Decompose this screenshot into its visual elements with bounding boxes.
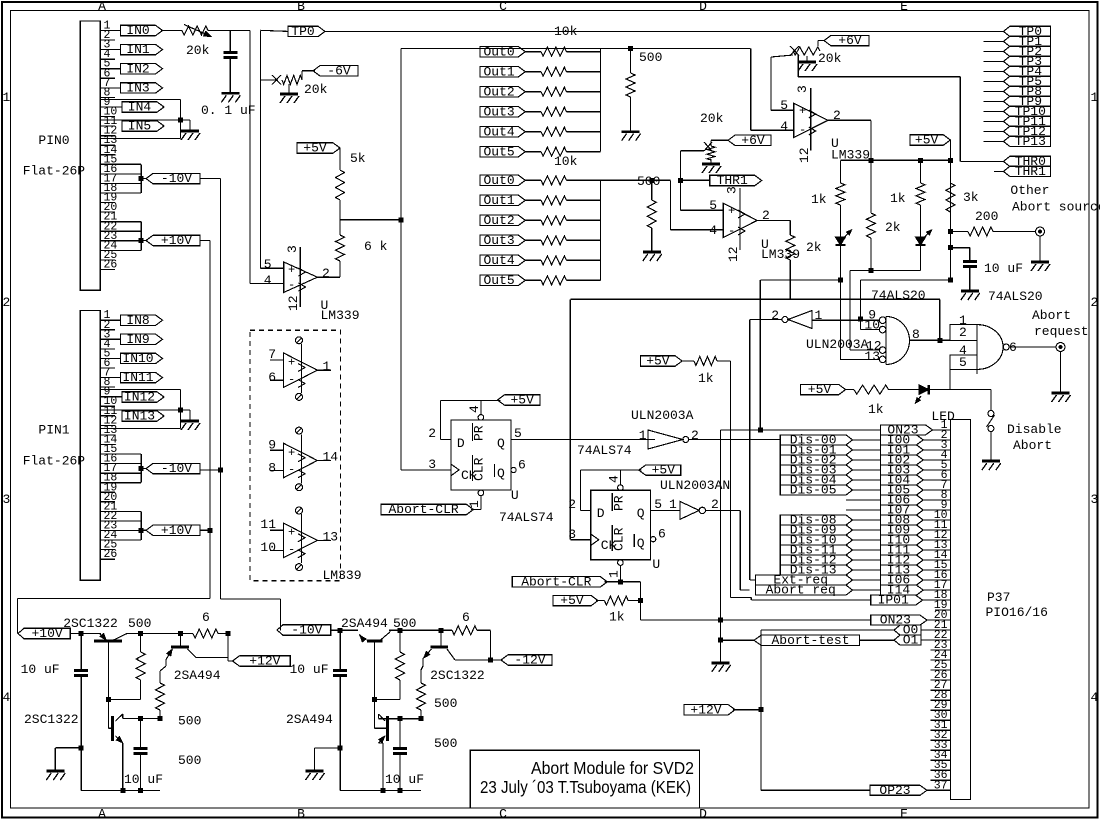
- svg-text:+5V: +5V: [510, 393, 534, 408]
- svg-text:IN0: IN0: [126, 23, 149, 38]
- svg-text:23 July ´03 T.Tsuboyama (KEK): 23 July ´03 T.Tsuboyama (KEK): [480, 777, 691, 797]
- svg-text:+5V: +5V: [646, 354, 670, 369]
- svg-text:8: 8: [912, 327, 920, 342]
- svg-text:THR1: THR1: [717, 173, 748, 188]
- svg-text:4: 4: [606, 475, 621, 483]
- svg-text:-: -: [288, 372, 295, 386]
- svg-text:10 uF: 10 uF: [21, 662, 60, 677]
- svg-text:3: 3: [1091, 492, 1099, 507]
- svg-text:500: 500: [637, 174, 660, 189]
- svg-text:6: 6: [268, 370, 276, 385]
- svg-text:Out3: Out3: [483, 233, 514, 248]
- svg-text:1: 1: [606, 570, 621, 578]
- svg-text:5: 5: [654, 497, 662, 512]
- svg-text:CLR: CLR: [472, 457, 487, 481]
- svg-text:6: 6: [518, 458, 526, 473]
- svg-text:Out0: Out0: [483, 173, 514, 188]
- svg-text:-: -: [728, 224, 735, 238]
- svg-text:5: 5: [959, 355, 967, 370]
- svg-text:A: A: [98, 0, 106, 14]
- svg-text:5k: 5k: [350, 151, 366, 166]
- svg-text:2: 2: [3, 295, 11, 310]
- svg-text:Q: Q: [637, 506, 645, 521]
- svg-text:+: +: [728, 204, 735, 218]
- svg-text:IN12: IN12: [124, 390, 155, 405]
- svg-text:500: 500: [434, 736, 457, 751]
- svg-text:2: 2: [711, 497, 719, 512]
- svg-text:Abort-CLR: Abort-CLR: [388, 502, 458, 517]
- svg-text:2SA494: 2SA494: [341, 616, 388, 631]
- svg-text:B: B: [297, 806, 305, 820]
- svg-text:12: 12: [797, 147, 812, 163]
- svg-text:Out4: Out4: [483, 253, 514, 268]
- svg-text:500: 500: [393, 616, 416, 631]
- svg-text:5: 5: [514, 426, 522, 441]
- svg-text:2SC1322: 2SC1322: [430, 668, 485, 683]
- svg-text:13: 13: [323, 529, 339, 544]
- svg-text:7: 7: [268, 347, 276, 362]
- svg-text:2: 2: [771, 308, 779, 323]
- svg-text:+6V: +6V: [838, 33, 862, 48]
- svg-text:3k: 3k: [963, 190, 979, 205]
- svg-text:2SA494: 2SA494: [174, 668, 221, 683]
- svg-text:PR: PR: [612, 495, 627, 511]
- svg-text:U: U: [511, 488, 519, 503]
- svg-text:OP23: OP23: [879, 783, 910, 798]
- svg-text:1k: 1k: [890, 191, 906, 206]
- svg-text:2: 2: [322, 266, 330, 281]
- svg-text:CLR: CLR: [612, 527, 627, 551]
- svg-text:500: 500: [178, 753, 201, 768]
- svg-text:C: C: [499, 0, 507, 14]
- svg-text:Abort-test: Abort-test: [771, 633, 849, 648]
- svg-text:IN11: IN11: [122, 370, 153, 385]
- svg-text:500: 500: [434, 696, 457, 711]
- svg-text:-10V: -10V: [291, 623, 322, 638]
- svg-text:Abort req: Abort req: [766, 583, 836, 598]
- svg-text:-: -: [288, 543, 295, 557]
- svg-text:10 uF: 10 uF: [124, 772, 163, 787]
- svg-text:+: +: [288, 526, 295, 540]
- svg-text:PIN1: PIN1: [38, 423, 69, 438]
- svg-text:1: 1: [639, 428, 647, 443]
- svg-text:+5V: +5V: [808, 382, 832, 397]
- svg-text:Out2: Out2: [483, 213, 514, 228]
- svg-text:PR: PR: [472, 425, 487, 441]
- svg-text:Abort Module for SVD2: Abort Module for SVD2: [531, 758, 694, 778]
- svg-text:+6V: +6V: [741, 133, 765, 148]
- svg-text:10: 10: [260, 540, 276, 555]
- svg-text:-6V: -6V: [327, 63, 351, 78]
- svg-text:+: +: [288, 356, 295, 370]
- svg-text:Disable: Disable: [1007, 422, 1062, 437]
- svg-text:3: 3: [725, 186, 740, 194]
- svg-text:1: 1: [323, 359, 331, 374]
- svg-text:200: 200: [975, 209, 998, 224]
- svg-text:8: 8: [268, 460, 276, 475]
- svg-text:-: -: [288, 278, 295, 292]
- svg-text:14: 14: [323, 450, 339, 465]
- svg-text:IN3: IN3: [126, 81, 149, 96]
- svg-text:U: U: [652, 557, 660, 572]
- svg-text:20k: 20k: [186, 43, 210, 58]
- svg-text:2k: 2k: [885, 220, 901, 235]
- svg-text:Out2: Out2: [483, 84, 514, 99]
- svg-text:4: 4: [264, 273, 272, 288]
- svg-text:TP13: TP13: [1015, 134, 1046, 149]
- svg-text:3: 3: [568, 527, 576, 542]
- svg-text:10k: 10k: [554, 154, 578, 169]
- svg-text:D: D: [699, 806, 707, 820]
- svg-text:Q: Q: [497, 436, 505, 451]
- svg-text:1: 1: [3, 90, 11, 105]
- svg-text:-12V: -12V: [514, 653, 545, 668]
- svg-text:4: 4: [709, 223, 717, 238]
- svg-text:PIN0: PIN0: [38, 133, 69, 148]
- svg-text:Other: Other: [1010, 183, 1049, 198]
- svg-text:E: E: [900, 0, 908, 14]
- svg-text:1k: 1k: [868, 402, 884, 417]
- svg-text:IN5: IN5: [128, 119, 151, 134]
- svg-text:Flat-26P: Flat-26P: [23, 454, 86, 469]
- svg-text:2SA494: 2SA494: [286, 712, 333, 727]
- svg-text:-: -: [799, 123, 806, 137]
- svg-text:+10V: +10V: [161, 523, 192, 538]
- svg-text:PIO16/16: PIO16/16: [986, 605, 1048, 620]
- svg-text:+: +: [288, 446, 295, 460]
- svg-text:Out4: Out4: [483, 124, 514, 139]
- svg-text:ULN2003A: ULN2003A: [631, 408, 694, 423]
- svg-text:Out3: Out3: [483, 104, 514, 119]
- svg-text:D: D: [597, 506, 605, 521]
- svg-text:Abort source: Abort source: [1012, 199, 1100, 214]
- svg-text:2SC1322: 2SC1322: [63, 616, 118, 631]
- svg-text:IN10: IN10: [122, 351, 153, 366]
- svg-text:0. 1 uF: 0. 1 uF: [201, 103, 256, 118]
- svg-text:+12V: +12V: [249, 654, 280, 669]
- svg-text:TP0: TP0: [291, 24, 314, 39]
- svg-text:3: 3: [795, 85, 810, 93]
- svg-text:Dis-05: Dis-05: [790, 483, 837, 498]
- svg-text:9: 9: [268, 437, 276, 452]
- svg-text:-: -: [288, 463, 295, 477]
- svg-text:+: +: [288, 263, 295, 277]
- svg-text:12: 12: [726, 246, 741, 262]
- svg-text:-10V: -10V: [161, 461, 192, 476]
- svg-text:2k: 2k: [806, 240, 822, 255]
- svg-text:ULN2003AN: ULN2003AN: [660, 478, 730, 493]
- svg-text:1k: 1k: [698, 371, 714, 386]
- svg-text:20k: 20k: [700, 111, 724, 126]
- svg-text:2: 2: [1091, 295, 1099, 310]
- svg-text:12: 12: [286, 295, 301, 311]
- svg-text:Out1: Out1: [483, 193, 514, 208]
- svg-text:Flat-26P: Flat-26P: [23, 164, 86, 179]
- svg-text:Out1: Out1: [483, 64, 514, 79]
- svg-text:20k: 20k: [304, 82, 328, 97]
- svg-text:E: E: [900, 806, 908, 820]
- svg-text:2SC1322: 2SC1322: [24, 712, 79, 727]
- svg-text:Abort-CLR: Abort-CLR: [521, 574, 591, 589]
- svg-text:IN2: IN2: [126, 61, 149, 76]
- svg-text:3: 3: [3, 492, 11, 507]
- svg-text:1: 1: [669, 497, 677, 512]
- svg-text:500: 500: [178, 714, 201, 729]
- svg-text:74ALS20: 74ALS20: [871, 288, 926, 303]
- svg-text:Out0: Out0: [483, 44, 514, 59]
- svg-text:2: 2: [568, 497, 576, 512]
- svg-text:LM339: LM339: [323, 568, 362, 583]
- svg-text:IN8: IN8: [126, 313, 149, 328]
- svg-text:IN1: IN1: [126, 42, 150, 57]
- svg-text:-10V: -10V: [161, 171, 192, 186]
- svg-text:500: 500: [128, 616, 151, 631]
- svg-text:+5V: +5V: [560, 593, 584, 608]
- svg-text:1: 1: [815, 308, 823, 323]
- svg-text:11: 11: [260, 517, 276, 532]
- svg-text:13: 13: [864, 349, 880, 364]
- svg-text:IN4: IN4: [128, 100, 152, 115]
- svg-text:Q: Q: [497, 466, 505, 481]
- svg-text:IN13: IN13: [124, 409, 155, 424]
- svg-text:Q: Q: [637, 536, 645, 551]
- svg-text:1k: 1k: [609, 609, 625, 624]
- svg-text:10 uF: 10 uF: [385, 772, 424, 787]
- svg-text:74ALS74: 74ALS74: [499, 510, 554, 525]
- svg-text:P37: P37: [987, 590, 1010, 605]
- svg-text:20k: 20k: [818, 51, 842, 66]
- svg-text:2: 2: [428, 426, 436, 441]
- svg-text:A: A: [98, 806, 106, 820]
- svg-text:10k: 10k: [554, 24, 578, 39]
- svg-text:5: 5: [264, 257, 272, 272]
- svg-text:request: request: [1034, 324, 1089, 339]
- svg-text:IN9: IN9: [126, 332, 149, 347]
- svg-text:D: D: [457, 436, 465, 451]
- svg-text:4: 4: [1091, 690, 1099, 705]
- svg-text:4: 4: [467, 405, 482, 413]
- svg-text:Abort: Abort: [1013, 438, 1052, 453]
- svg-text:6: 6: [202, 610, 210, 625]
- svg-text:500: 500: [639, 50, 662, 65]
- svg-text:B: B: [297, 0, 305, 14]
- svg-text:10 uF: 10 uF: [984, 261, 1023, 276]
- svg-text:+5V: +5V: [652, 463, 676, 478]
- svg-text:Abort: Abort: [1032, 308, 1071, 323]
- svg-text:3: 3: [428, 457, 436, 472]
- svg-text:+10V: +10V: [31, 626, 62, 641]
- svg-text:O1: O1: [903, 633, 919, 648]
- svg-text:1: 1: [1091, 90, 1099, 105]
- svg-text:2: 2: [959, 325, 967, 340]
- svg-text:5: 5: [780, 98, 788, 113]
- svg-text:6: 6: [462, 610, 470, 625]
- svg-text:+5V: +5V: [303, 141, 327, 156]
- svg-text:+12V: +12V: [690, 702, 721, 717]
- svg-text:4: 4: [780, 119, 788, 134]
- svg-text:THR1: THR1: [1015, 164, 1046, 179]
- svg-text:+10V: +10V: [161, 233, 192, 248]
- svg-text:Out5: Out5: [483, 144, 514, 159]
- svg-text:6: 6: [658, 527, 666, 542]
- svg-text:IP01: IP01: [878, 593, 909, 608]
- svg-text:4: 4: [3, 690, 11, 705]
- svg-text:10 uF: 10 uF: [290, 662, 329, 677]
- svg-text:5: 5: [709, 198, 717, 213]
- svg-text:3: 3: [285, 245, 300, 253]
- svg-text:D: D: [699, 0, 707, 14]
- svg-text:LM339: LM339: [321, 308, 360, 323]
- svg-text:1k: 1k: [811, 192, 827, 207]
- svg-text:74ALS20: 74ALS20: [988, 289, 1043, 304]
- svg-text:Out5: Out5: [483, 273, 514, 288]
- svg-text:2: 2: [691, 428, 699, 443]
- svg-text:74ALS74: 74ALS74: [577, 443, 632, 458]
- svg-text:6 k: 6 k: [364, 239, 388, 254]
- svg-text:+: +: [799, 104, 806, 118]
- svg-text:+5V: +5V: [915, 133, 939, 148]
